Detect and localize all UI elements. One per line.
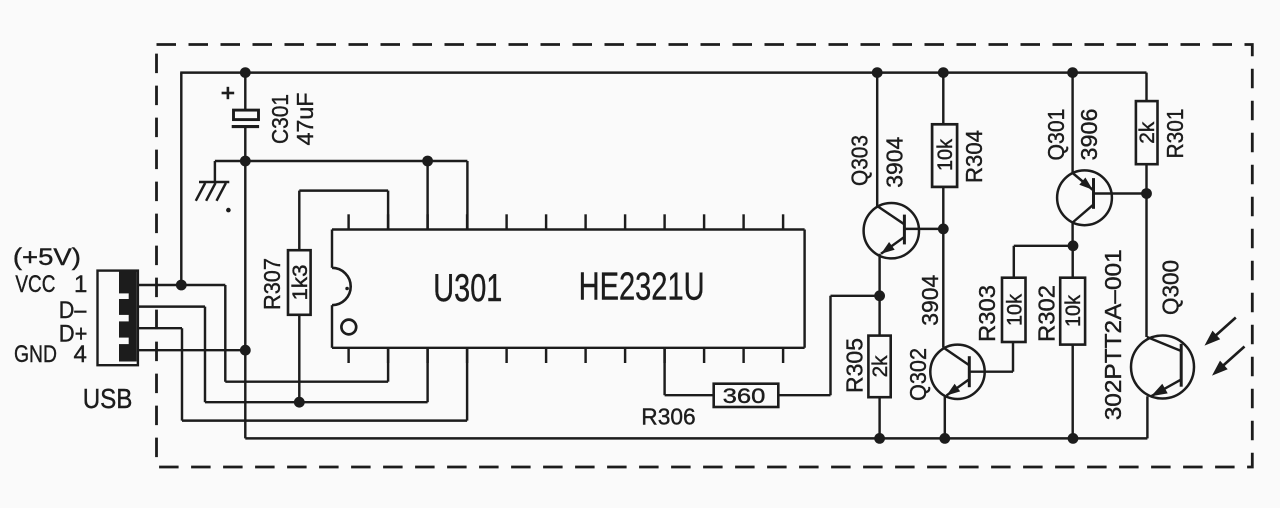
- light arrow 1: [1209, 318, 1236, 342]
- svg-text:1: 1: [74, 271, 87, 298]
- transistor Q301 (PNP): [1057, 170, 1112, 225]
- svg-text:R305: R305: [842, 338, 868, 393]
- pin stub top 1: [347, 214, 349, 229]
- pin stub bottom 3: [426, 348, 428, 363]
- pin stub bottom 1: [347, 348, 349, 363]
- pin stub top 2: [387, 214, 389, 229]
- node: Q303 emitter / R305 / R306 junction: [874, 290, 885, 301]
- svg-text:GND: GND: [14, 341, 57, 368]
- op-amp/IC U301 body: [332, 230, 805, 348]
- node: R302 to rail: [1068, 433, 1079, 444]
- node: rail-Q301 junction: [1067, 67, 1078, 78]
- wire: D- pin 2 to IC: [138, 305, 205, 307]
- capacitor C301 top plate: [234, 110, 259, 120]
- resistor R303: [1002, 278, 1026, 342]
- wire: top +5V rail: [180, 71, 1146, 73]
- light arrow 2: [1217, 347, 1245, 372]
- pin stub top 6: [545, 214, 547, 229]
- node: GND junction: [240, 345, 251, 356]
- wire: R303 top lead and bracket: [1013, 246, 1015, 278]
- ground symbol tick dot: [226, 208, 231, 213]
- node: rail-C301 junction: [240, 67, 251, 78]
- IC U301 notch speck: [345, 287, 349, 291]
- dashed enclosure border: [157, 45, 1253, 468]
- wire: ground drop to IC top pin 3: [426, 161, 428, 230]
- pin stub bottom 9: [663, 348, 665, 363]
- svg-text:302PTT2A–001: 302PTT2A–001: [1100, 249, 1126, 420]
- svg-text:2k: 2k: [1136, 121, 1159, 143]
- wire: Q302 collector from Q303 base node: [942, 229, 944, 348]
- pin stub bottom 7: [584, 348, 586, 363]
- resistor R307: [288, 250, 311, 315]
- svg-text:R307: R307: [259, 258, 285, 310]
- svg-text:R304: R304: [961, 130, 987, 183]
- wire: R302 top lead: [1071, 246, 1073, 278]
- wire: Q301 emitter from rail: [1071, 73, 1073, 173]
- connector USB contact comb: [119, 271, 137, 362]
- wire: ground net horizontal: [215, 160, 468, 162]
- pin stub bottom 5: [505, 348, 507, 363]
- wire: R307 top lead and bracket to IC top pin 2: [298, 191, 300, 251]
- svg-text:C301: C301: [267, 94, 293, 144]
- node: D- to R307 junction: [294, 397, 305, 408]
- IC U301 pin-1 marker: [341, 320, 356, 335]
- pin stub top 7: [584, 214, 586, 229]
- wire: Q301 collector down to R302/R303 node: [1071, 223, 1073, 246]
- wire: Q301 base to R301 node: [1094, 192, 1147, 194]
- pin stub top 9: [663, 214, 665, 229]
- svg-text:U301: U301: [433, 267, 502, 310]
- node: rail-Q303 junction: [872, 67, 883, 78]
- capacitor C301 bottom plate: [232, 125, 259, 128]
- pin stub bottom 12: [782, 348, 784, 363]
- svg-text:VCC: VCC: [15, 271, 55, 298]
- pin stub top 10: [703, 214, 705, 229]
- svg-text:1k3: 1k3: [289, 265, 312, 301]
- pin stub bottom 6: [545, 348, 547, 363]
- svg-text:Q301: Q301: [1043, 109, 1069, 161]
- svg-text:HE2321U: HE2321U: [579, 266, 705, 309]
- svg-text:360: 360: [723, 385, 766, 408]
- svg-text:R301: R301: [1162, 109, 1188, 159]
- svg-text:R306: R306: [641, 403, 695, 429]
- node: rail-R304 junction: [938, 67, 949, 78]
- wire: C301 top lead: [244, 73, 246, 111]
- wire: R306 to Q303 emitter node: [778, 394, 830, 396]
- wire: R307 bottom lead to D-: [298, 315, 300, 402]
- pin stub bottom 4: [466, 348, 468, 363]
- pin stub bottom 10: [703, 348, 705, 363]
- resistor R301: [1136, 101, 1158, 164]
- IC U301 pin stubs: [349, 214, 783, 363]
- wire: bottom ground rail: [245, 437, 1147, 439]
- wire: ground drop to IC top pin 4: [466, 161, 468, 230]
- wire: Q303 collector from rail: [876, 73, 878, 206]
- node: C301-ground junction: [240, 156, 251, 167]
- wire: Q303 emitter down to R305: [878, 254, 880, 336]
- svg-text:(+5V): (+5V): [13, 244, 81, 271]
- node: R305 to rail: [874, 433, 885, 444]
- ground symbol: [196, 182, 230, 201]
- wire: R305 bottom lead: [878, 397, 880, 438]
- transistor Q302: [930, 345, 984, 399]
- svg-text:10k: 10k: [1003, 294, 1026, 326]
- node: Q301 base / R301 junction: [1141, 188, 1152, 199]
- svg-text:USB: USB: [83, 383, 133, 414]
- wire: R304 bottom lead to Q303 base node: [942, 187, 944, 229]
- svg-text:Q300: Q300: [1157, 260, 1183, 315]
- wire: R304 top lead: [942, 73, 944, 125]
- node: Q301 collector / R303 / R302 junction: [1068, 240, 1079, 251]
- svg-text:3904: 3904: [882, 136, 908, 187]
- wire: R301 bottom lead down to Q300: [1145, 164, 1147, 337]
- pin stub bottom 11: [742, 348, 744, 363]
- wire: C301 bottom lead down to GND node: [244, 127, 246, 439]
- node: Q303 base junction: [938, 224, 949, 235]
- svg-text:47uF: 47uF: [292, 93, 318, 146]
- svg-text:10k: 10k: [934, 139, 957, 171]
- resistor R306: [714, 384, 779, 407]
- resistor R304: [932, 124, 957, 187]
- svg-text:Q302: Q302: [905, 348, 931, 401]
- pin stub bottom 8: [624, 348, 626, 363]
- svg-text:3904: 3904: [917, 274, 943, 325]
- svg-text:Q303: Q303: [847, 135, 873, 186]
- svg-text:10k: 10k: [1062, 295, 1085, 327]
- wire: Q300 emitter to rail: [1146, 396, 1148, 438]
- pin stub top 8: [624, 214, 626, 229]
- wire: left VCC rail vertical: [180, 73, 182, 285]
- pin stub top 3: [426, 214, 428, 229]
- wire: D+ pin 3 to IC: [138, 327, 182, 329]
- node: ground to IC pin junction: [422, 156, 433, 167]
- wire: Q302 base to R303: [969, 370, 1013, 372]
- node: Q302 emitter to rail: [939, 433, 950, 444]
- wire: ground symbol stem: [214, 161, 216, 182]
- capacitor C301 polarity plus: [222, 92, 235, 95]
- pin stub top 12: [782, 214, 784, 229]
- wire: rail drop to R301: [1145, 73, 1147, 102]
- resistor R305: [868, 336, 890, 398]
- svg-text:R303: R303: [974, 285, 1000, 342]
- svg-text:4: 4: [74, 341, 87, 368]
- wire: Q302 emitter to rail: [944, 396, 946, 439]
- wire: Q303 base to R304 node: [904, 228, 943, 230]
- wire: IC bottom pin 9 to R306: [663, 348, 665, 395]
- pin stub bottom 2: [387, 348, 389, 363]
- pin stub top 5: [505, 214, 507, 229]
- transistor Q303: [864, 203, 919, 258]
- pin stub top 11: [742, 214, 744, 229]
- resistor R302: [1060, 278, 1085, 345]
- pin stub top 4: [466, 214, 468, 229]
- svg-text:R302: R302: [1034, 285, 1060, 342]
- wire: R302 bottom lead to rail: [1071, 345, 1073, 439]
- svg-text:3906: 3906: [1076, 109, 1102, 161]
- wire: VCC pin 1 to rail and IC: [138, 284, 225, 286]
- wire: GND pin 4: [138, 349, 245, 351]
- svg-text:2k: 2k: [869, 355, 892, 377]
- connector USB outline: [98, 271, 138, 366]
- phototransistor Q300: [1131, 336, 1194, 399]
